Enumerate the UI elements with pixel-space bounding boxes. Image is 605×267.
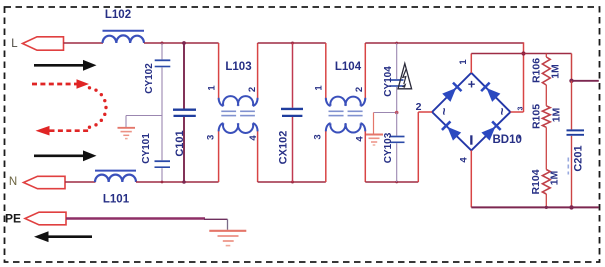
svg-text:R105: R105 bbox=[531, 104, 543, 129]
L104 pin 3 bbox=[313, 134, 324, 139]
inductor L101 bbox=[95, 171, 136, 206]
wire bottom rail L103 to L104 bbox=[258, 181, 326, 184]
svg-text:CY101: CY101 bbox=[141, 133, 152, 164]
ground PE earth symbol bbox=[209, 231, 246, 246]
svg-text:C201: C201 bbox=[573, 145, 585, 171]
common-mode choke L104 bbox=[326, 43, 366, 182]
svg-text:BD10: BD10 bbox=[493, 134, 522, 146]
svg-text:1: 1 bbox=[207, 85, 218, 91]
svg-text:CY104: CY104 bbox=[383, 66, 394, 97]
capacitor C201 bbox=[567, 81, 585, 208]
svg-text:4: 4 bbox=[459, 157, 470, 163]
wire PE to earth symbol bbox=[66, 219, 228, 230]
svg-text:2: 2 bbox=[354, 87, 365, 92]
red dotted return curve bbox=[88, 86, 108, 129]
bridge polarity marks + ~ ~ - bbox=[436, 76, 509, 144]
L103 pin 2 bbox=[247, 87, 258, 92]
inductor L102 bbox=[103, 9, 145, 43]
ground for Y-capacitors CY104 CY103 bbox=[366, 113, 383, 146]
capacitor CY103 bbox=[383, 113, 405, 183]
black arrow PE direction bbox=[34, 231, 92, 242]
svg-text:~: ~ bbox=[494, 107, 509, 115]
svg-text:R104: R104 bbox=[530, 169, 542, 194]
svg-text:1: 1 bbox=[314, 85, 325, 91]
svg-text:1: 1 bbox=[458, 59, 469, 65]
svg-text:CX102: CX102 bbox=[278, 131, 290, 165]
svg-text:CY103: CY103 bbox=[383, 132, 394, 163]
capacitor CY102 bbox=[144, 43, 170, 116]
wire earth junction node bbox=[374, 111, 399, 115]
label BD10 bbox=[493, 134, 522, 146]
svg-text:4: 4 bbox=[355, 136, 366, 142]
resistor R106 1M bbox=[531, 54, 562, 106]
capacitor CY101 bbox=[141, 116, 170, 183]
svg-text:PE: PE bbox=[5, 211, 21, 225]
wire bottom rail L104 to bridge pin 2 riser bbox=[365, 181, 418, 184]
bridge diode top-right bbox=[480, 82, 500, 102]
svg-text:L103: L103 bbox=[225, 61, 251, 73]
wire bridge pin 4 riser to DC- rail bbox=[470, 150, 472, 207]
capacitor CY104 bbox=[383, 43, 404, 113]
bridge pin 2 bbox=[416, 101, 422, 113]
capacitor CX102 bbox=[278, 43, 304, 182]
svg-text:CY102: CY102 bbox=[144, 63, 155, 94]
L104 pin 1 bbox=[314, 85, 325, 91]
ground for Y-capacitors CY102 CY101 bbox=[118, 116, 163, 139]
svg-text:R106: R106 bbox=[531, 58, 543, 83]
red dashed arrow noise path (left) bbox=[36, 126, 92, 136]
wire bridge pin 3 to line rail bbox=[510, 42, 525, 112]
bridge rectifier BD10 body bbox=[432, 73, 510, 151]
wire L terminal to L102 bbox=[64, 42, 104, 44]
wire top rail L102 to L103 bbox=[144, 41, 219, 45]
wire top rail L103 to L104 bbox=[258, 42, 326, 45]
hazard high-voltage triangle symbol bbox=[398, 64, 412, 89]
svg-text:1M: 1M bbox=[548, 170, 560, 185]
black arrow current direction (line) bbox=[34, 60, 97, 71]
wire bridge pin 1 riser to DC+ rail bbox=[470, 54, 472, 74]
svg-text:C101: C101 bbox=[174, 130, 186, 156]
wire DC+ output stub bbox=[569, 79, 599, 83]
svg-text:L104: L104 bbox=[335, 61, 362, 73]
L103 pin 4 bbox=[248, 135, 259, 141]
svg-text:3: 3 bbox=[206, 135, 217, 140]
svg-text:+: + bbox=[468, 76, 476, 91]
svg-text:L101: L101 bbox=[103, 194, 130, 206]
resistor R105 1M bbox=[531, 104, 563, 170]
svg-text:2: 2 bbox=[416, 101, 422, 113]
bridge diode bottom-left bbox=[441, 121, 461, 141]
svg-text:~: ~ bbox=[436, 107, 451, 115]
wire bottom rail L101 to L103 bbox=[136, 180, 219, 184]
svg-text:N: N bbox=[9, 176, 17, 188]
bridge pin 1 bbox=[458, 59, 469, 65]
bridge pin 3 bbox=[518, 106, 525, 110]
capacitor C101 bbox=[173, 43, 196, 182]
svg-text:3: 3 bbox=[313, 134, 324, 139]
common-mode choke L103 bbox=[219, 43, 258, 182]
svg-text:2: 2 bbox=[247, 87, 258, 92]
bridge diode bottom-right bbox=[481, 121, 501, 141]
bridge pin 4 bbox=[459, 157, 470, 163]
terminal PE (protective earth connector) bbox=[5, 211, 66, 225]
resistor R104 1M bbox=[530, 169, 560, 207]
svg-text:1M: 1M bbox=[550, 64, 562, 79]
wire DC+ rail bbox=[471, 54, 571, 81]
L103 pin 1 bbox=[207, 85, 218, 91]
svg-text:4: 4 bbox=[248, 135, 259, 141]
black arrow current direction (neutral) bbox=[34, 150, 97, 161]
L104 pin 2 bbox=[354, 87, 365, 92]
L103 pin 3 bbox=[206, 135, 217, 140]
terminal N (neutral input connector) bbox=[9, 176, 65, 189]
wire top rail L104 to bridge bbox=[365, 42, 523, 45]
wire N terminal to L101 bbox=[65, 181, 96, 183]
wire DC- rail bbox=[471, 205, 599, 209]
terminal L (line input connector) bbox=[11, 37, 63, 50]
red dashed arrow noise path (right) bbox=[32, 79, 89, 89]
bridge diode top-left bbox=[442, 82, 462, 102]
svg-text:L: L bbox=[11, 38, 18, 50]
svg-text:L102: L102 bbox=[105, 9, 131, 21]
svg-text:1M: 1M bbox=[550, 107, 562, 122]
wire bridge pin 2 to neutral rail bbox=[418, 112, 432, 182]
L104 pin 4 bbox=[355, 136, 366, 142]
